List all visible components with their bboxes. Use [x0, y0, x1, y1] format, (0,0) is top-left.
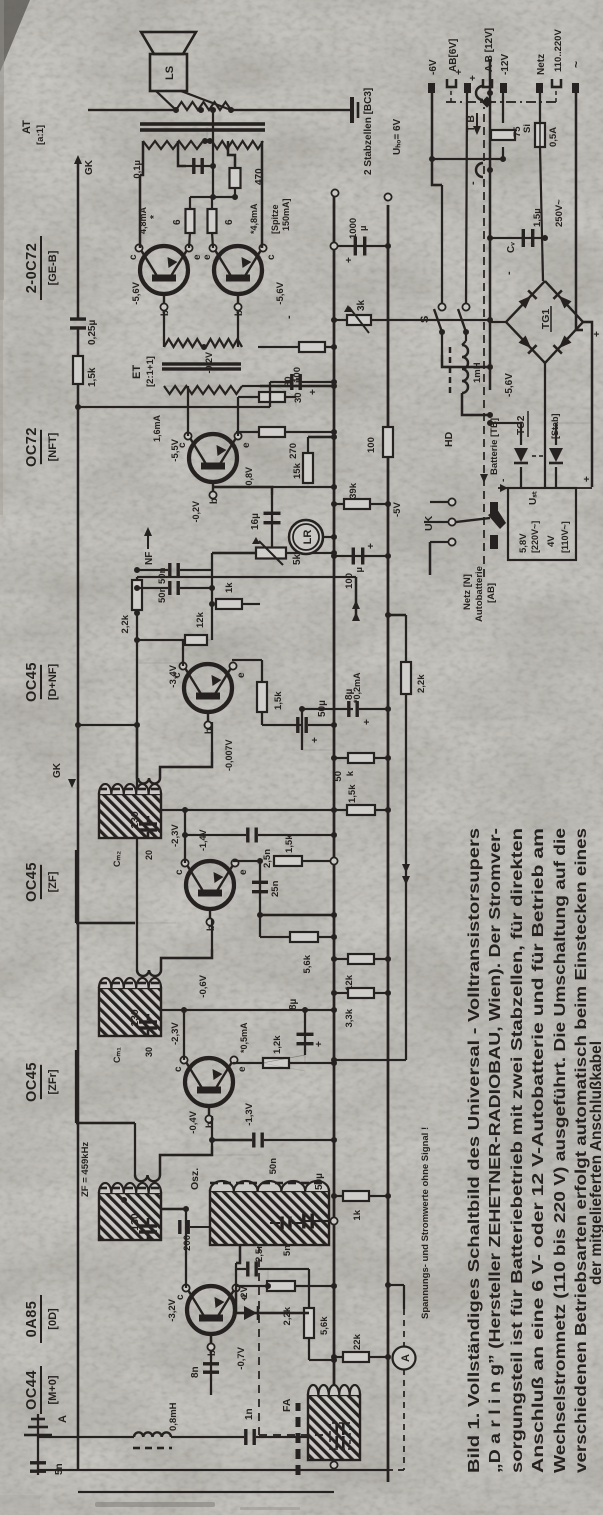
meter A dashed loop — [403, 1309, 405, 1346]
svg-text:+: + — [314, 1041, 325, 1047]
wire bias upside-down L — [134, 1123, 136, 1175]
wire to Q5 base — [212, 487, 272, 495]
svg-text:6: 6 — [172, 219, 183, 225]
FA trimmer caps — [330, 1423, 350, 1449]
svg-text:-5V: -5V — [392, 502, 403, 517]
svg-text:Cᵥ: Cᵥ — [506, 242, 517, 253]
svg-text:b: b — [204, 728, 215, 734]
svg-text:der mitgelieferten Anschlußka: der mitgelieferten Anschlußkabel — [588, 1041, 603, 1285]
svg-text:-: - — [467, 181, 479, 185]
wire -5,6V rail — [489, 59, 491, 390]
svg-text:e: e — [237, 1066, 248, 1072]
svg-text:6: 6 — [224, 219, 235, 225]
svg-text:AB[6V]: AB[6V] — [448, 39, 459, 72]
capacitor 2,5n — [236, 1268, 246, 1270]
capacitor 0,25u GK — [70, 326, 86, 329]
svg-text:250V~: 250V~ — [554, 199, 565, 227]
svg-text:15k: 15k — [292, 462, 303, 479]
svg-text:1,6mA: 1,6mA — [152, 414, 162, 442]
wire CM2 primary to bus — [161, 809, 334, 811]
svg-text:e: e — [241, 442, 252, 448]
svg-text:[Spitze: [Spitze — [270, 204, 280, 234]
svg-text:3k: 3k — [356, 299, 367, 311]
svg-text:50µ: 50µ — [314, 1173, 325, 1190]
svg-text:S: S — [419, 316, 431, 323]
resistor 50k — [348, 753, 374, 763]
capacitor 5n osc — [280, 1217, 283, 1230]
svg-text:1,5k: 1,5k — [347, 784, 358, 803]
svg-text:-6V: -6V — [428, 59, 439, 75]
svg-text:1,5k: 1,5k — [284, 834, 295, 853]
svg-text:2,5n: 2,5n — [262, 849, 273, 868]
svg-text:+: + — [344, 257, 355, 263]
IF can CM2 130 — [99, 794, 161, 838]
wire ET to output bases — [163, 312, 165, 347]
inductor HD 1mH — [462, 345, 468, 393]
resistor 6 upper — [189, 232, 190, 248]
svg-text:-1,4V: -1,4V — [198, 829, 208, 851]
main negative bus (-6V rail) — [333, 193, 336, 1465]
svg-text:100: 100 — [292, 367, 303, 383]
svg-text:-3,4V: -3,4V — [168, 664, 179, 687]
svg-text:c: c — [174, 869, 185, 875]
svg-text:-: - — [498, 479, 509, 482]
svg-text:150mA]: 150mA] — [281, 198, 291, 231]
IF can CM1 130 — [99, 988, 161, 1036]
Ust bracket — [498, 487, 592, 489]
svg-text:FA: FA — [281, 1398, 293, 1412]
svg-text:[0D]: [0D] — [47, 1308, 59, 1330]
resistor 100 series bus — [383, 427, 393, 457]
wire emitter join to speaker line — [190, 196, 213, 198]
resistor 5,6k — [290, 932, 318, 942]
wire Q4 base — [211, 722, 213, 752]
terminal -12V — [500, 83, 507, 93]
capacitor 1n — [171, 1436, 244, 1438]
svg-text:e: e — [236, 672, 247, 678]
svg-text:„D a r l i n g” (Hersteller ZE: „D a r l i n g” (Hersteller ZEHETNER-RAD… — [487, 828, 504, 1473]
svg-text:LR: LR — [302, 530, 314, 545]
svg-text:20: 20 — [144, 850, 154, 860]
svg-text:-: - — [283, 315, 295, 319]
resistor 5,6k — [308, 1269, 310, 1360]
capacitor 8n — [203, 1371, 219, 1374]
wire S pole1 down — [442, 355, 490, 367]
capacitor 50u osc — [302, 1220, 334, 1222]
svg-text:130: 130 — [129, 1009, 141, 1027]
wire Q1 emitter network — [235, 1269, 237, 1288]
resistor 2,2k — [267, 1281, 295, 1291]
svg-text:200: 200 — [182, 1235, 193, 1251]
wire base line mixer — [210, 1334, 212, 1395]
svg-text:0,25µ: 0,25µ — [87, 320, 98, 345]
svg-text:sorgungsteil ist für Batter: sorgungsteil ist für Batteriebetrieb mit… — [509, 828, 526, 1473]
svg-text:b: b — [205, 1122, 216, 1128]
svg-text:GK: GK — [84, 159, 95, 175]
damping resistor 470 — [230, 168, 241, 188]
wire CM1 primary to bus — [161, 1009, 334, 1011]
capacitor 8u decoupling — [304, 1010, 306, 1063]
tuning gang dashed link — [258, 1247, 260, 1435]
svg-text:Cₘ₂: Cₘ₂ — [112, 851, 122, 867]
svg-text:100: 100 — [344, 573, 355, 589]
svg-text:*0,5mA: *0,5mA — [239, 1022, 249, 1053]
svg-text:110..220V: 110..220V — [553, 29, 564, 72]
variable resistor 3k — [334, 319, 490, 321]
svg-text:Osz.: Osz. — [189, 1168, 201, 1190]
svg-text:µ: µ — [354, 567, 365, 572]
wire Q3 base — [211, 919, 213, 949]
resistor 1,5k emitter — [233, 861, 235, 863]
svg-text:1,2k: 1,2k — [272, 1035, 283, 1054]
transistor Q2 OC45 ZFr — [185, 1058, 233, 1106]
svg-text:0,1µ: 0,1µ — [132, 160, 143, 179]
svg-text:-2V: -2V — [239, 1286, 250, 1301]
resistor 75 Si dropper — [491, 130, 515, 140]
capacitor 16u — [264, 521, 281, 524]
svg-text:8n: 8n — [190, 1366, 201, 1378]
power transformer box — [508, 488, 576, 560]
svg-text:-2,3V: -2,3V — [170, 1022, 181, 1045]
ring nodes on buses — [331, 189, 338, 196]
capacitor 2,5n — [185, 834, 246, 836]
svg-text:Si: Si — [522, 124, 533, 133]
arrow to selector — [476, 113, 478, 131]
svg-text:1k: 1k — [352, 1209, 363, 1220]
svg-text:Autobatterie: Autobatterie — [474, 566, 485, 622]
svg-text:50n 50n: 50n 50n — [157, 567, 168, 603]
wire Q2 base bypass 50n — [211, 1116, 213, 1146]
svg-text:5,6k: 5,6k — [319, 1316, 330, 1335]
svg-text:OC72: OC72 — [24, 427, 40, 467]
wire ZF1 tap drop — [126, 1200, 186, 1209]
trimmer 200 — [178, 1220, 181, 1234]
svg-text:Uₕₒ= 6V: Uₕₒ= 6V — [392, 118, 403, 155]
dashed Batterie line — [483, 107, 485, 577]
ferrite rod FA — [296, 1403, 301, 1475]
wire ZF1 can bottom to bus — [161, 1237, 186, 1239]
transistor Q4 OC45 D+NF — [184, 664, 232, 712]
svg-text:5n: 5n — [282, 1245, 293, 1256]
inductor 0,8mH — [38, 1436, 134, 1438]
svg-text:0A85: 0A85 — [24, 1301, 40, 1338]
AT primary windings — [143, 141, 203, 149]
transistor Q3 OC45 ZF — [186, 861, 234, 909]
svg-text:b: b — [207, 1350, 218, 1356]
svg-text:µ: µ — [358, 226, 369, 231]
wire ET secondary top — [164, 385, 188, 387]
svg-text:-0,7V: -0,7V — [236, 1346, 247, 1369]
capacitor 100u — [334, 555, 388, 557]
svg-text:5,6k: 5,6k — [302, 954, 313, 973]
transistor Q7 OC72 output lower — [214, 246, 262, 294]
svg-text:+: + — [454, 69, 465, 75]
svg-text:1mH: 1mH — [472, 362, 483, 383]
volume pot 5k — [256, 548, 286, 559]
fuse 0,5A — [539, 93, 541, 123]
svg-text:2,2k: 2,2k — [416, 674, 427, 693]
wire Q5 collector to ET — [187, 386, 189, 436]
svg-text:2-0C72: 2-0C72 — [24, 243, 40, 294]
svg-text:-3,2V: -3,2V — [167, 1298, 178, 1321]
resistor 270 — [259, 427, 285, 437]
wire top drop x790 — [78, 724, 137, 726]
transistor Q1 OC44 — [187, 1286, 235, 1334]
svg-text:130: 130 — [129, 811, 141, 829]
svg-text:OC45: OC45 — [24, 1062, 40, 1102]
svg-text:A B [12V]: A B [12V] — [484, 28, 495, 72]
resistor 6 lower — [212, 232, 213, 248]
terminal AB[6V] — [447, 79, 456, 87]
resistor 39k — [344, 499, 370, 509]
svg-text:8µ: 8µ — [344, 688, 355, 700]
wire NF line to pot — [211, 553, 213, 570]
transistor Q6 OC72 output upper — [140, 246, 188, 294]
AT core — [140, 128, 265, 132]
wire CM2 coil to Q4 base — [160, 752, 212, 778]
svg-text:470: 470 — [254, 168, 265, 185]
svg-text:-5,6V: -5,6V — [131, 281, 142, 304]
damping 0,1u — [186, 165, 213, 167]
svg-text:3,3k: 3,3k — [344, 1008, 355, 1027]
wire GK return to emitter node — [78, 406, 270, 408]
scan artifact top-left corner — [0, 0, 30, 72]
svg-text:+: + — [308, 389, 319, 395]
AVC line — [136, 613, 138, 970]
svg-text:1,5µ: 1,5µ — [532, 208, 543, 227]
resistor 12k — [185, 635, 207, 645]
svg-text:0,8mH: 0,8mH — [168, 1402, 179, 1431]
svg-text:-2,3V: -2,3V — [170, 824, 181, 847]
svg-text:[GE-B]: [GE-B] — [47, 250, 59, 285]
antenna A — [37, 1414, 39, 1475]
terminal + AB — [464, 83, 471, 93]
svg-text:GK: GK — [52, 762, 63, 778]
terminal -6V — [428, 83, 435, 93]
transistor Q5 OC72 driver — [189, 434, 237, 482]
coupling coil CM1 — [137, 970, 161, 976]
svg-text:30: 30 — [144, 1047, 154, 1057]
svg-text:1,5k: 1,5k — [273, 691, 284, 710]
svg-text:NF: NF — [144, 552, 155, 565]
meter LR — [289, 520, 323, 554]
resistor 1k — [343, 1191, 369, 1201]
terminal Netz plug — [552, 79, 561, 87]
scan artifact bottom smudges — [95, 1502, 215, 1507]
svg-text:-12V: -12V — [500, 54, 511, 75]
resistor 1,5k GK — [73, 356, 83, 384]
svg-text:2,2k: 2,2k — [282, 1306, 293, 1325]
resistor 1,2k emitter — [233, 1060, 235, 1063]
ground chassis — [343, 109, 352, 111]
terminal ~ — [572, 83, 579, 93]
svg-text:[ZF]: [ZF] — [47, 871, 59, 892]
wire AVC drop — [137, 576, 356, 578]
svg-text:Cₘ₁: Cₘ₁ — [112, 1047, 122, 1063]
terminal Netz — [536, 83, 543, 93]
resistor 1k — [211, 570, 213, 640]
svg-text:-0,4V: -0,4V — [188, 1110, 199, 1133]
svg-text:130: 130 — [129, 1213, 141, 1231]
svg-text:-1,3V: -1,3V — [244, 1102, 255, 1125]
top feedback/AVC bus — [77, 328, 79, 1470]
wire Q7 collector to AT — [261, 141, 263, 248]
svg-text:1n: 1n — [244, 1408, 255, 1420]
svg-text:OC45: OC45 — [24, 862, 40, 902]
svg-text:22k: 22k — [352, 1333, 363, 1350]
svg-text:50n: 50n — [268, 1158, 279, 1175]
terminal AB[12V] — [483, 79, 492, 87]
svg-text:+: + — [366, 543, 377, 549]
svg-text:c: c — [173, 1066, 184, 1072]
svg-text:-5,6V: -5,6V — [275, 281, 286, 304]
svg-text:Batterie [TB]: Batterie [TB] — [489, 418, 500, 475]
svg-text:b: b — [234, 310, 245, 316]
svg-text:Wechselstromnetz (110 bis 220: Wechselstromnetz (110 bis 220 V) ausgefü… — [552, 828, 569, 1473]
wire Q6 collector to AT — [139, 175, 141, 248]
svg-text:-0,6V: -0,6V — [198, 974, 209, 997]
svg-text:Anschluß an eine 6 V- oder: Anschluß an eine 6 V- oder 12 V-Autobatt… — [530, 828, 547, 1473]
svg-text:[AB]: [AB] — [486, 583, 497, 603]
wire bridge to rails — [490, 321, 506, 323]
svg-text:-: - — [503, 271, 515, 275]
diode 0A85 — [236, 1288, 309, 1313]
resistor 100 output tap — [258, 346, 298, 348]
svg-text:[M+0]: [M+0] — [47, 1375, 59, 1404]
main supply bus — [387, 456, 390, 1482]
bridge diodes — [519, 296, 532, 309]
resistor 1,5k top — [347, 805, 375, 815]
svg-text:-0,2V: -0,2V — [204, 352, 214, 374]
svg-text:[a:1]: [a:1] — [35, 125, 46, 145]
svg-text:-0,2V: -0,2V — [191, 501, 201, 523]
svg-text:-5,5V: -5,5V — [170, 438, 181, 461]
FA input tuned circuit can — [308, 1395, 360, 1460]
svg-text:-5,6V: -5,6V — [504, 373, 515, 397]
wire Q1 collector to ZF1 — [185, 1209, 187, 1288]
speaker LS — [150, 54, 187, 91]
capacitor 80u — [295, 382, 297, 407]
capacitor Cv — [490, 237, 546, 239]
svg-text:AT: AT — [21, 120, 33, 134]
svg-text:+: + — [592, 331, 603, 337]
wire Q2 collector to CM1 — [183, 1010, 185, 1060]
capacitor 8u NF — [302, 708, 353, 710]
dash-dot selector line — [446, 101, 557, 103]
svg-text:39k: 39k — [348, 482, 359, 499]
svg-text:OC45: OC45 — [24, 662, 40, 702]
svg-text:A: A — [57, 1415, 69, 1423]
resistor 30 — [237, 397, 239, 432]
wire AGC line — [405, 694, 407, 1060]
svg-text:UK: UK — [423, 515, 435, 531]
svg-text:HD: HD — [443, 431, 455, 447]
svg-text:[2:1+1]: [2:1+1] — [145, 356, 156, 387]
svg-text:25n: 25n — [270, 880, 281, 897]
wire left edge vertical — [78, 1491, 334, 1493]
wire Q4 collector to 12k node — [182, 640, 184, 666]
svg-text:LS: LS — [164, 66, 176, 80]
svg-text:*: * — [149, 215, 160, 219]
AT secondary on speaker line — [88, 109, 176, 111]
rectifier bridge TG1 — [506, 281, 583, 363]
svg-text:Spannungs- und Stromwerte ohn: Spannungs- und Stromwerte ohne Signal ! — [420, 1127, 431, 1319]
driver emitter network — [237, 432, 239, 436]
resistor 100 tap — [206, 127, 208, 141]
wire pot wiper to 16u — [271, 495, 273, 547]
svg-text:[220V~]: [220V~] — [530, 521, 540, 553]
svg-text:+: + — [582, 476, 593, 482]
svg-text:-0,8V: -0,8V — [244, 467, 254, 489]
svg-text:*4,8mA: *4,8mA — [249, 203, 259, 234]
capacitor 25n — [260, 914, 334, 917]
resistor 2,2k AGC — [401, 662, 411, 694]
svg-text:b: b — [209, 498, 220, 504]
svg-text:8µ: 8µ — [288, 998, 299, 1010]
svg-text:e: e — [238, 869, 249, 875]
svg-text:Netz [N]: Netz [N] — [462, 574, 473, 610]
svg-text:ZF = 459kHz: ZF = 459kHz — [80, 1142, 91, 1197]
svg-text:270: 270 — [288, 443, 299, 459]
wire bus334 to ring — [387, 193, 389, 205]
svg-text:12k: 12k — [195, 611, 206, 628]
resistor 1,5k emitter — [232, 660, 234, 666]
wire ZF1 coil to Q2 base — [160, 1146, 212, 1175]
IF can ZF1 130 — [99, 1193, 161, 1240]
svg-text:50: 50 — [333, 771, 344, 782]
svg-text:Uₛₜ: Uₛₜ — [528, 491, 539, 505]
svg-text:[NFT]: [NFT] — [47, 432, 59, 461]
wire top-bus left drop — [38, 1469, 388, 1471]
svg-text:Netz: Netz — [536, 54, 547, 75]
svg-text:5n: 5n — [54, 1463, 65, 1475]
svg-text:+: + — [468, 75, 479, 81]
svg-text:Bild 1. Vollständiges Schalt: Bild 1. Vollständiges Schaltbild des Uni… — [466, 828, 483, 1473]
svg-text:c: c — [128, 254, 139, 260]
svg-text:[110V~]: [110V~] — [560, 521, 570, 553]
wire osc to emitter — [236, 1245, 240, 1263]
svg-text:100: 100 — [366, 437, 377, 453]
resistor 3,3k — [348, 988, 374, 998]
capacitor 50u — [262, 724, 302, 726]
svg-text:5,8V: 5,8V — [518, 533, 529, 553]
svg-text:4V: 4V — [546, 535, 557, 547]
svg-text:1k: 1k — [224, 582, 235, 593]
capacitor 1000u — [334, 245, 388, 247]
svg-text:b: b — [160, 310, 171, 316]
svg-text:~: ~ — [569, 61, 583, 68]
resistor 15k base — [272, 486, 334, 488]
wire Q3 stage bias L — [76, 922, 135, 925]
svg-text:+: + — [310, 737, 321, 743]
svg-text:[ZFr]: [ZFr] — [47, 1069, 59, 1094]
wire Q3 collector — [184, 810, 186, 863]
svg-text:16µ: 16µ — [250, 513, 261, 530]
svg-text:0,5A: 0,5A — [548, 127, 559, 147]
svg-text:[D+NF]: [D+NF] — [47, 663, 59, 700]
svg-text:-0,007V: -0,007V — [224, 739, 234, 771]
wire top bus to speaker line — [87, 109, 89, 111]
wire CM1 coil to Q3 base — [161, 949, 212, 970]
svg-text:+: + — [362, 719, 373, 725]
svg-text:2,2k: 2,2k — [120, 614, 131, 633]
capacitor 5n — [30, 1470, 46, 1473]
resistor 22k — [343, 1352, 369, 1362]
svg-text:k: k — [345, 770, 356, 776]
svg-text:A: A — [400, 1354, 412, 1362]
wire CM2 coil link — [137, 725, 138, 778]
coupling coil ZF1 — [135, 1175, 160, 1181]
